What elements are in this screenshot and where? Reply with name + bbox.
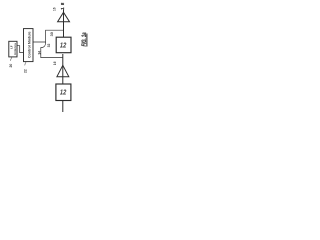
- svg-text:12: 12: [60, 42, 67, 50]
- svg-text:12: 12: [60, 89, 67, 97]
- antenna top (triangle + mast): [58, 9, 70, 37]
- svg-text:16: 16: [53, 7, 57, 11]
- antenna bottom (triangle + mast): [57, 54, 69, 84]
- wire between boxes A and B: [17, 46, 24, 53]
- box LF Antenna (left small box): [9, 41, 17, 57]
- svg-text:30: 30: [50, 32, 54, 36]
- box Control Module: [24, 29, 34, 62]
- svg-text:Antenna: Antenna: [13, 43, 17, 55]
- svg-text:Control Module: Control Module: [27, 31, 31, 58]
- wire below bottom box: [62, 101, 64, 113]
- svg-text:22: 22: [24, 69, 28, 73]
- wire control module to top antenna unit: [33, 30, 64, 42]
- wire control module to bottom antenna unit: [41, 42, 63, 58]
- box remote unit 12 (top): [56, 37, 71, 53]
- box remote unit 12 (bottom): [56, 84, 71, 101]
- svg-text:18: 18: [60, 2, 65, 10]
- svg-text:32: 32: [47, 44, 51, 48]
- svg-text:16: 16: [53, 61, 57, 65]
- svg-text:20: 20: [9, 64, 13, 68]
- label 20 under left box with leader: [9, 57, 13, 67]
- svg-text:FIG. 1a: FIG. 1a: [81, 32, 88, 46]
- svg-text:34: 34: [37, 51, 41, 55]
- label 22 under control module with leader: [24, 62, 28, 73]
